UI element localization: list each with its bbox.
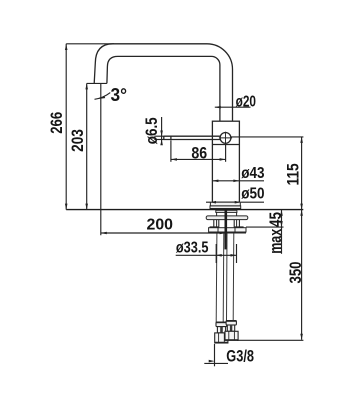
svg-text:3°: 3° bbox=[111, 85, 128, 105]
svg-text:max: max bbox=[266, 228, 285, 253]
svg-text:350: 350 bbox=[286, 262, 305, 284]
svg-text:200: 200 bbox=[147, 217, 174, 234]
svg-text:ø6.5: ø6.5 bbox=[142, 117, 161, 144]
svg-text:45: 45 bbox=[266, 212, 285, 227]
svg-text:ø33.5: ø33.5 bbox=[176, 240, 209, 257]
svg-text:86: 86 bbox=[191, 143, 207, 162]
svg-text:G3/8: G3/8 bbox=[226, 346, 254, 365]
svg-text:ø43: ø43 bbox=[241, 165, 265, 182]
svg-text:ø50: ø50 bbox=[241, 186, 264, 203]
svg-text:115: 115 bbox=[284, 163, 303, 185]
svg-text:203: 203 bbox=[68, 129, 87, 152]
svg-text:266: 266 bbox=[47, 112, 66, 134]
svg-text:ø20: ø20 bbox=[236, 94, 256, 111]
